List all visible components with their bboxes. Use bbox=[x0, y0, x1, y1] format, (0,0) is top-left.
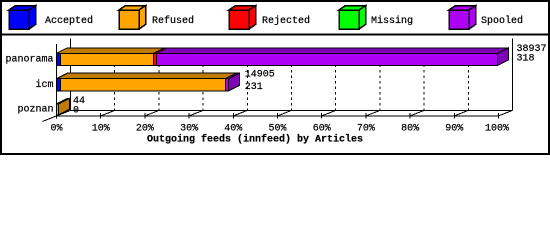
svg-text:10%: 10% bbox=[92, 124, 110, 135]
back y-axis bbox=[70, 38, 72, 110]
dashed gridline 10% (back plane) bbox=[114, 48, 116, 111]
bar icm: front segment accepted (blue) bbox=[57, 79, 61, 91]
outer border frame bbox=[1, 1, 549, 154]
legend cube Accepted (blue) bbox=[9, 6, 36, 30]
svg-text:70%: 70% bbox=[357, 124, 375, 135]
x-axis tick 70% bbox=[366, 110, 380, 118]
svg-text:80%: 80% bbox=[401, 124, 419, 135]
svg-text:60%: 60% bbox=[313, 124, 331, 135]
bar panorama: right side face spooled (dark purple) bbox=[498, 48, 509, 66]
svg-text:0%: 0% bbox=[50, 124, 62, 135]
svg-text:318: 318 bbox=[517, 54, 535, 65]
svg-text:Outgoing feeds (innfeed) by Ar: Outgoing feeds (innfeed) by Articles bbox=[147, 134, 363, 146]
x-axis tick 20% bbox=[145, 110, 159, 118]
bar poznan: top face refused (dark orange) bbox=[57, 98, 70, 104]
bar icm: top face refused (dark orange) bbox=[57, 73, 237, 79]
svg-text:231: 231 bbox=[245, 82, 263, 93]
dashed gridline 30% (back plane) bbox=[202, 48, 204, 111]
svg-text:Accepted: Accepted bbox=[45, 15, 93, 27]
dashed gridline 60% (back plane) bbox=[335, 48, 337, 111]
bar panorama: top face rejected (dark red) bbox=[154, 48, 168, 54]
dashed gridline 50% (back plane) bbox=[291, 48, 293, 111]
x-axis tick 30% bbox=[189, 110, 203, 118]
bar panorama: front segment refused (orange) bbox=[61, 53, 154, 65]
svg-text:icm: icm bbox=[35, 79, 53, 91]
dashed gridline 40% (back plane) bbox=[246, 48, 248, 111]
svg-text:Missing: Missing bbox=[371, 15, 413, 27]
svg-text:panorama: panorama bbox=[5, 55, 53, 66]
dashed gridline 80% (back plane) bbox=[423, 48, 425, 111]
svg-text:50%: 50% bbox=[268, 124, 286, 135]
svg-text:90%: 90% bbox=[445, 124, 463, 135]
baseline left 3D extension bbox=[43, 116, 57, 122]
dashed gridline 90% (back plane) bbox=[467, 48, 469, 111]
x-axis tick 10% bbox=[101, 110, 115, 118]
svg-text:Spooled: Spooled bbox=[481, 15, 523, 27]
legend separator line bbox=[0, 34, 550, 36]
bar icm: front segment refused (orange) bbox=[61, 79, 226, 91]
x-axis tick 40% bbox=[233, 110, 247, 118]
bar icm: front segment spooled (purple) bbox=[225, 79, 228, 91]
svg-text:20%: 20% bbox=[136, 124, 154, 135]
svg-text:poznan: poznan bbox=[17, 105, 53, 116]
legend cube Missing (green) bbox=[339, 6, 366, 30]
svg-text:100%: 100% bbox=[485, 124, 509, 135]
bar panorama: top face refused (dark orange) bbox=[57, 48, 165, 54]
back baseline bbox=[71, 109, 513, 111]
svg-text:Rejected: Rejected bbox=[262, 15, 310, 27]
bar poznan: right side face refused (dark orange) bbox=[59, 98, 70, 115]
bar icm: top face spooled (purple) bbox=[225, 73, 239, 79]
x-axis tick 60% bbox=[322, 110, 336, 118]
bar panorama: top face spooled (purple) bbox=[157, 48, 509, 54]
front baseline bbox=[57, 115, 499, 117]
x-axis tick 80% bbox=[410, 110, 424, 118]
x-axis tick 0% bbox=[57, 110, 71, 118]
x-axis tick 90% bbox=[454, 110, 468, 118]
bar panorama: front segment spooled (purple) bbox=[157, 53, 498, 65]
svg-text:30%: 30% bbox=[180, 124, 198, 135]
bar poznan: front segment refused (orange) bbox=[57, 104, 59, 115]
legend cube Rejected (red) bbox=[229, 6, 256, 30]
dashed gridline 70% (back plane) bbox=[379, 48, 381, 111]
front y-axis bbox=[56, 44, 58, 119]
svg-text:0: 0 bbox=[73, 105, 79, 116]
bar panorama: front segment accepted (blue) bbox=[57, 53, 61, 65]
dashed gridline 20% (back plane) bbox=[158, 48, 160, 111]
svg-text:14905: 14905 bbox=[245, 70, 275, 81]
solid gridline 100% (back plane right boundary) bbox=[512, 38, 514, 110]
svg-text:Refused: Refused bbox=[152, 15, 194, 27]
bar icm: right side face spooled (dark purple) bbox=[229, 73, 240, 91]
x-axis tick 100% bbox=[499, 110, 513, 118]
legend cube Refused (orange) bbox=[119, 6, 146, 30]
legend cube Spooled (purple) bbox=[449, 6, 476, 30]
bar panorama: front segment rejected (red) bbox=[154, 53, 157, 65]
x-axis tick 50% bbox=[278, 110, 292, 118]
svg-text:40%: 40% bbox=[224, 124, 242, 135]
